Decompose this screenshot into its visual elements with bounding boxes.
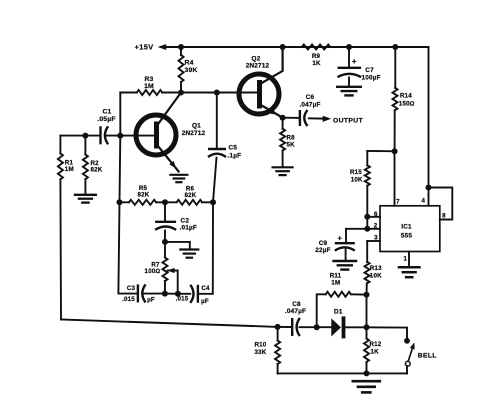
resistor R10: [275, 327, 280, 374]
wire twin-T bottom: [145, 293, 191, 295]
label pin 1: [403, 255, 407, 262]
label R7 100ohm: [145, 262, 161, 276]
+15V supply arrow: [158, 44, 181, 50]
svg-text:2N2712: 2N2712: [246, 63, 270, 70]
svg-text:22µF: 22µF: [315, 247, 331, 254]
svg-text:.047µF: .047µF: [285, 308, 306, 315]
ground C2 node: [180, 250, 198, 258]
label IC1 555: [401, 224, 413, 240]
wire C6 to output: [309, 117, 323, 119]
label R11 1M: [330, 272, 342, 286]
node R5 left junction: [117, 199, 123, 205]
wire pin7 stem: [394, 151, 396, 206]
svg-text:BELL: BELL: [418, 353, 437, 360]
node rail-R4 junction: [178, 44, 184, 50]
node wire-C5 junction: [214, 90, 220, 96]
resistor R3: [137, 90, 162, 95]
svg-text:C3: C3: [127, 285, 136, 292]
node C2-R7 junction: [162, 239, 168, 245]
svg-text:100µF: 100µF: [362, 74, 381, 81]
label R13 10K: [370, 265, 382, 279]
label R1 1M: [65, 160, 74, 174]
svg-text:Q1: Q1: [192, 123, 201, 130]
resistor R13: [365, 241, 370, 295]
label pin 3: [374, 235, 378, 242]
label pin 7: [396, 199, 400, 206]
svg-text:R3: R3: [144, 76, 153, 83]
resistor R4: [179, 47, 184, 93]
label C8 .047uF: [285, 301, 306, 315]
wire pin 8 branch: [429, 188, 453, 220]
svg-text:R14: R14: [400, 93, 412, 100]
svg-text:IC1: IC1: [401, 224, 412, 231]
svg-text:+15V: +15V: [135, 43, 154, 52]
label R14 150ohm: [399, 93, 415, 108]
wire R11 left elbow: [317, 294, 326, 327]
svg-text:C7: C7: [365, 67, 374, 74]
svg-text:R13: R13: [370, 265, 382, 272]
resistor R2: [83, 136, 88, 194]
label C9 plus: [338, 234, 343, 243]
label C1 .05uF: [97, 109, 116, 123]
label R5 82K: [138, 185, 150, 199]
wire pin4 vertical: [428, 47, 430, 206]
svg-text:Q2: Q2: [252, 56, 261, 63]
label C6 .047uF: [299, 94, 320, 108]
wire R13 to D1 junction: [366, 295, 368, 328]
svg-text:.05µF: .05µF: [97, 116, 116, 123]
node R15-pin2 junction: [364, 226, 370, 232]
transistor Q2: [239, 47, 283, 118]
wire C8 to D1: [300, 326, 332, 328]
node wiper bottom junction: [175, 291, 181, 297]
label R8 5K: [287, 135, 296, 149]
ground main: [353, 381, 380, 392]
label R10 33K: [255, 341, 267, 356]
svg-text:1: 1: [403, 255, 407, 262]
capacitor C7: [338, 47, 362, 86]
node bottom-ground junction: [364, 370, 370, 376]
capacitor C9: [335, 229, 355, 260]
resistor R12: [364, 327, 369, 373]
pin 6 stub: [367, 216, 380, 218]
node R6-C5 junction: [210, 199, 216, 205]
node rail-C7 junction: [346, 44, 352, 50]
node wire-R10 junction: [275, 324, 281, 330]
svg-text:.1µF: .1µF: [228, 152, 242, 159]
label D1: [334, 309, 343, 316]
node R7 bottom junction: [162, 291, 168, 297]
resistor R6: [177, 200, 203, 205]
label +15V: [135, 43, 154, 52]
resistor R14: [393, 47, 398, 151]
label C7 100uF: [362, 67, 381, 81]
label Q1 2N2712: [182, 123, 206, 137]
svg-text:10K: 10K: [370, 272, 382, 279]
svg-text:R4: R4: [185, 60, 194, 67]
svg-text:8: 8: [442, 212, 446, 219]
svg-text:1M: 1M: [144, 83, 154, 90]
label C9 22uF: [315, 240, 331, 254]
wire bell top: [367, 327, 408, 338]
label C4 .015uF: [176, 285, 210, 305]
svg-text:R15: R15: [350, 169, 362, 176]
node base-R2 junction: [82, 133, 88, 139]
node R5-R6-C2 junction: [162, 199, 168, 205]
capacitor C4: [190, 285, 198, 303]
diode D1: [331, 318, 343, 336]
node Q2 emitter junction: [280, 115, 286, 121]
resistor R1: [58, 136, 63, 320]
capacitor C8: [292, 318, 300, 336]
svg-text:µF: µF: [201, 298, 209, 305]
label R2 82K: [91, 160, 103, 173]
capacitor C1: [101, 126, 109, 144]
svg-text:33K: 33K: [255, 349, 267, 356]
node base-feedback junction: [117, 133, 123, 139]
node D1-R12 junction: [364, 324, 370, 330]
svg-text:OUTPUT: OUTPUT: [333, 117, 364, 124]
label R4 39K: [185, 60, 198, 75]
label pin 6: [374, 211, 378, 218]
ground C9: [334, 261, 357, 270]
node rail-Q2 collector junction: [280, 44, 286, 50]
svg-text:2N2712: 2N2712: [182, 130, 206, 137]
label pin 2: [374, 222, 378, 229]
label R3 1M: [144, 76, 154, 90]
svg-text:C5: C5: [229, 145, 238, 152]
wire R3 row: [120, 92, 257, 94]
pin 3 wire: [367, 240, 380, 242]
svg-text:1K: 1K: [312, 60, 321, 67]
svg-text:2: 2: [374, 222, 378, 229]
wire left feedback vertical: [118, 93, 136, 294]
svg-text:C9: C9: [319, 240, 328, 247]
wire C2 ground stub: [165, 242, 190, 249]
wire R14 to R15: [367, 150, 394, 152]
node R14-R15-pin7 junction: [392, 148, 398, 154]
label BELL: [418, 353, 437, 360]
svg-text:1K: 1K: [371, 348, 380, 355]
svg-text:.015: .015: [176, 296, 189, 303]
svg-text:+: +: [352, 57, 357, 66]
svg-text:5K: 5K: [287, 142, 296, 149]
wire +15V supply rail: [166, 46, 429, 48]
svg-text:4: 4: [421, 198, 425, 205]
ground R2: [75, 195, 96, 203]
label R9 1K: [312, 53, 321, 67]
label R12 1K: [370, 341, 382, 355]
node R13-R11 junction: [364, 292, 370, 298]
wire R5-R6 row: [120, 201, 214, 203]
svg-text:R10: R10: [255, 341, 267, 348]
svg-text:555: 555: [401, 233, 413, 240]
ground Q1 emitter: [170, 175, 187, 182]
svg-text:82K: 82K: [138, 192, 150, 199]
wire D1 to R12: [345, 326, 366, 328]
label pin 4: [421, 198, 425, 205]
capacitor C6: [300, 110, 308, 126]
label R15 10K: [350, 169, 363, 183]
svg-text:39K: 39K: [185, 67, 198, 74]
svg-text:R11: R11: [330, 272, 342, 279]
pin 2 wire: [346, 228, 380, 230]
label OUTPUT: [333, 117, 364, 124]
wire emitter to C6: [283, 117, 300, 119]
svg-text:1M: 1M: [331, 279, 340, 286]
svg-text:+: +: [338, 234, 343, 243]
capacitor C3: [138, 284, 146, 302]
svg-text:D1: D1: [334, 309, 343, 316]
wire IC pin1 stem: [408, 252, 410, 267]
svg-text:7: 7: [396, 199, 400, 206]
wire Q1 base: [60, 135, 154, 137]
resistor R5: [129, 200, 156, 205]
svg-text:82K: 82K: [91, 166, 103, 173]
svg-text:6: 6: [374, 211, 378, 218]
label Q2 2N2712: [246, 56, 270, 70]
svg-text:R8: R8: [287, 135, 296, 142]
node C8-R11 junction: [314, 324, 320, 330]
label C2 .01uF: [180, 218, 197, 232]
switch S1 bell: [404, 338, 415, 374]
label pin 8: [442, 212, 446, 219]
label C7 plus: [352, 57, 357, 66]
wire bottom return: [278, 372, 407, 374]
wiper arm R7: [168, 268, 178, 294]
svg-text:3: 3: [374, 235, 378, 242]
node rail-R14 junction: [392, 44, 398, 50]
svg-text:.015: .015: [122, 296, 135, 303]
svg-text:C2: C2: [181, 218, 190, 225]
wire long feedback: [61, 320, 292, 328]
svg-text:100Ω: 100Ω: [145, 268, 161, 275]
resistor R8: [280, 118, 285, 167]
svg-text:C6: C6: [306, 94, 315, 101]
node R3-R4-Q1 collector junction: [178, 90, 184, 96]
svg-text:C4: C4: [201, 285, 210, 292]
ground C7: [337, 87, 361, 96]
svg-text:C1: C1: [102, 109, 111, 116]
wire C5 branch: [199, 93, 217, 294]
node R15-pin6 junction: [364, 214, 370, 220]
svg-text:µF: µF: [147, 296, 155, 303]
ground R8: [273, 167, 293, 175]
svg-text:82K: 82K: [185, 192, 197, 199]
ground IC1: [399, 267, 420, 277]
resistor R7: [163, 242, 168, 294]
svg-text:150Ω: 150Ω: [399, 100, 415, 107]
svg-text:C8: C8: [292, 301, 301, 308]
label C5 .1uF: [228, 145, 242, 160]
resistor R11: [326, 292, 351, 297]
wire R11 right: [351, 293, 367, 295]
resistor R15: [365, 151, 370, 229]
svg-text:10K: 10K: [351, 176, 363, 183]
capacitor C5: [208, 149, 226, 157]
capacitor C2: [155, 202, 176, 242]
label C3 .015uF: [122, 285, 155, 303]
label R6 82K: [185, 186, 197, 200]
svg-text:.01µF: .01µF: [180, 225, 197, 232]
transistor Q1: [136, 93, 181, 172]
resistor R9: [302, 45, 331, 50]
node pin4-pin8 junction: [426, 185, 432, 191]
svg-text:1M: 1M: [65, 166, 74, 173]
svg-text:R12: R12: [370, 341, 382, 348]
output arrow: [323, 116, 332, 122]
op-amp U1 IC1 555 box: [380, 206, 440, 252]
svg-text:.047µF: .047µF: [299, 101, 320, 108]
